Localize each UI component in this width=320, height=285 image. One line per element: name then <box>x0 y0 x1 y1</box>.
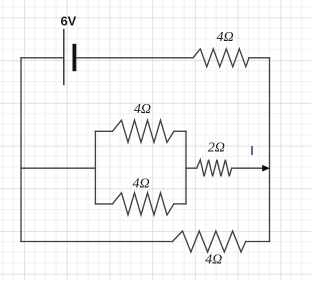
resistor R3 4ohm parallel bottom zigzag <box>112 193 173 215</box>
svg-text:4Ω: 4Ω <box>216 30 233 45</box>
resistor R5 2ohm zigzag <box>197 160 232 177</box>
wire left vertical <box>20 58 22 242</box>
svg-text:4Ω: 4Ω <box>132 176 149 191</box>
wire current arrow shaft <box>232 167 263 169</box>
svg-text:I: I <box>250 143 254 158</box>
wire stub to 2ohm <box>186 167 197 169</box>
wire parallel box right vertical <box>185 131 187 204</box>
wire bottom left <box>21 241 173 243</box>
wire parallel box left vertical <box>94 131 96 204</box>
wire battery to top resistor <box>76 57 193 59</box>
wire parallel bottom lead left <box>95 203 112 205</box>
wire right vertical <box>269 58 271 242</box>
wire middle horizontal <box>21 167 95 169</box>
wire parallel top lead right <box>174 130 186 132</box>
svg-text:4Ω: 4Ω <box>134 102 151 117</box>
resistor R4 4ohm bottom zigzag <box>173 231 246 252</box>
battery V1 plate short (thick) <box>73 44 77 71</box>
battery V1 plate long <box>63 30 65 85</box>
svg-text:2Ω: 2Ω <box>208 141 225 156</box>
wire top left (to battery) <box>21 57 63 59</box>
resistor R1 4ohm top zigzag <box>193 49 249 67</box>
svg-text:6V: 6V <box>60 14 76 29</box>
wire parallel top lead left <box>95 130 112 132</box>
current arrowhead <box>262 165 270 172</box>
resistor R2 4ohm parallel top zigzag <box>112 120 173 142</box>
svg-text:4Ω: 4Ω <box>205 253 222 268</box>
wire top right corner <box>249 57 270 59</box>
wire parallel bottom lead right <box>174 203 186 205</box>
wire bottom right corner <box>246 241 270 243</box>
